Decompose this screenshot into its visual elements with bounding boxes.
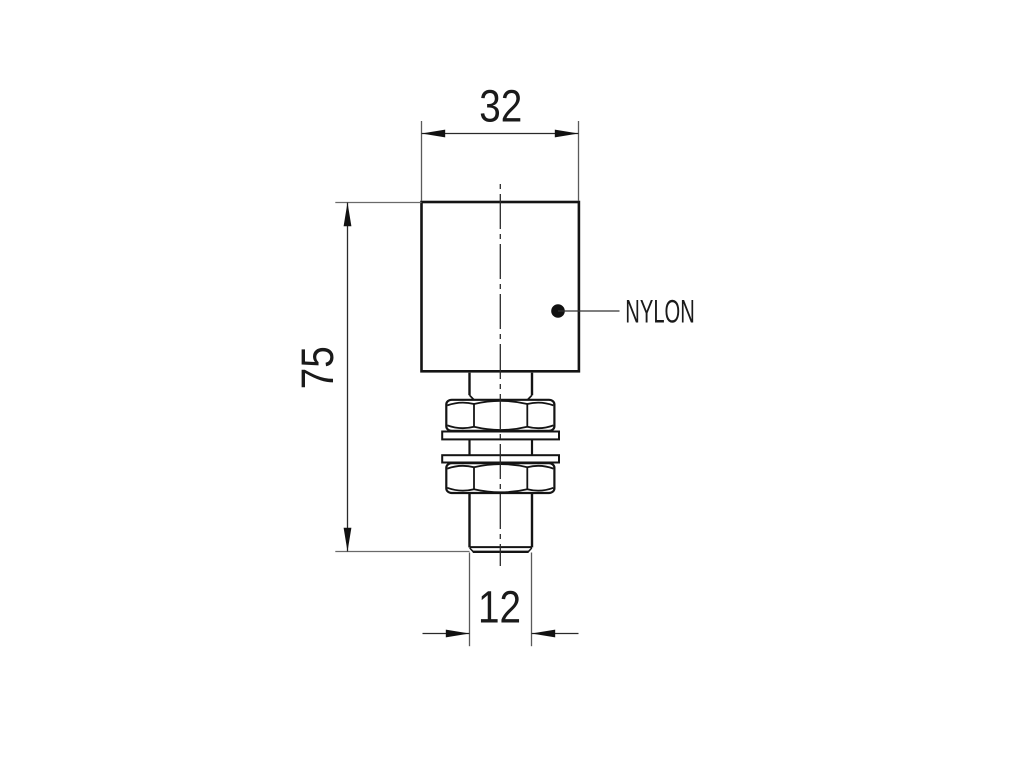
hex nut (bottom) — [446, 463, 554, 493]
centerline — [499, 184, 501, 566]
svg-text:12: 12 — [478, 582, 521, 633]
washer (upper) — [442, 432, 559, 440]
svg-text:NYLON: NYLON — [625, 293, 695, 330]
svg-text:75: 75 — [292, 346, 343, 389]
washer (lower) — [442, 455, 559, 462]
body cylinder rectangle — [422, 202, 579, 371]
svg-text:32: 32 — [479, 81, 522, 132]
dimension 32: arrowheads — [422, 130, 446, 138]
dimension 12: extension lines — [470, 553, 532, 647]
material leader line — [558, 310, 620, 312]
dimension 12: arrowheads — [446, 630, 470, 638]
dimension 75: arrowheads — [344, 203, 352, 227]
dimension 32: dimension line — [422, 133, 579, 135]
dimension 75: dimension line — [347, 203, 349, 552]
dimension 12: dimension line segments — [423, 633, 579, 635]
threaded stud (bottom stem) — [470, 493, 533, 552]
neck stem above top nut — [470, 373, 533, 400]
hex nut (top) — [446, 400, 554, 431]
dimension 75: extension lines — [335, 203, 469, 552]
material leader dot — [551, 304, 565, 318]
rod between washers — [470, 439, 533, 455]
dimension 32: extension lines — [422, 121, 579, 201]
